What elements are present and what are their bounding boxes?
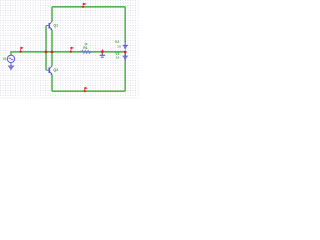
svg-text:V2: V2 — [115, 40, 119, 44]
svg-text:Q1: Q1 — [53, 24, 58, 28]
wire V1 top stub — [10, 52, 12, 55]
junction ground node — [101, 49, 104, 53]
wire Q2 emitter to bottom rail — [51, 74, 53, 91]
svg-text:1A: 1A — [116, 55, 120, 59]
svg-text:Q2: Q2 — [53, 68, 58, 72]
probe flag on V1 net — [20, 47, 24, 53]
junction Q1e-Q2c — [51, 50, 54, 53]
svg-text:1k: 1k — [84, 42, 88, 46]
wire right rail upper — [124, 7, 126, 42]
junction right rail — [124, 50, 127, 53]
source V1 — [7, 55, 14, 62]
wire Q1 emitter vertical — [51, 30, 53, 52]
svg-text:R1: R1 — [83, 46, 87, 50]
transistor Q1 — [46, 21, 52, 30]
transistor Q2 — [46, 66, 52, 75]
ground at mid net — [100, 52, 105, 57]
probe flag on top rail — [82, 3, 87, 8]
wire top rail — [52, 6, 125, 8]
wire bottom rail — [52, 90, 125, 92]
wire main horizontal net — [10, 51, 125, 53]
ground arrow below V1 — [8, 62, 14, 70]
svg-text:1A: 1A — [117, 45, 121, 49]
probe flag on mid net — [70, 47, 74, 53]
svg-text:V1: V1 — [3, 57, 7, 61]
wire right rail lower — [124, 52, 126, 91]
junction base bus — [45, 50, 48, 53]
current arrow upper right — [123, 41, 128, 50]
current arrow lower right — [123, 53, 128, 62]
wire Q1 collector stub — [51, 7, 53, 21]
wire Q2 collector vertical — [51, 52, 53, 66]
wire base bus Q1-Q2 — [45, 26, 47, 71]
resistor R1 — [79, 50, 93, 53]
probe flag on bottom rail — [84, 87, 88, 92]
